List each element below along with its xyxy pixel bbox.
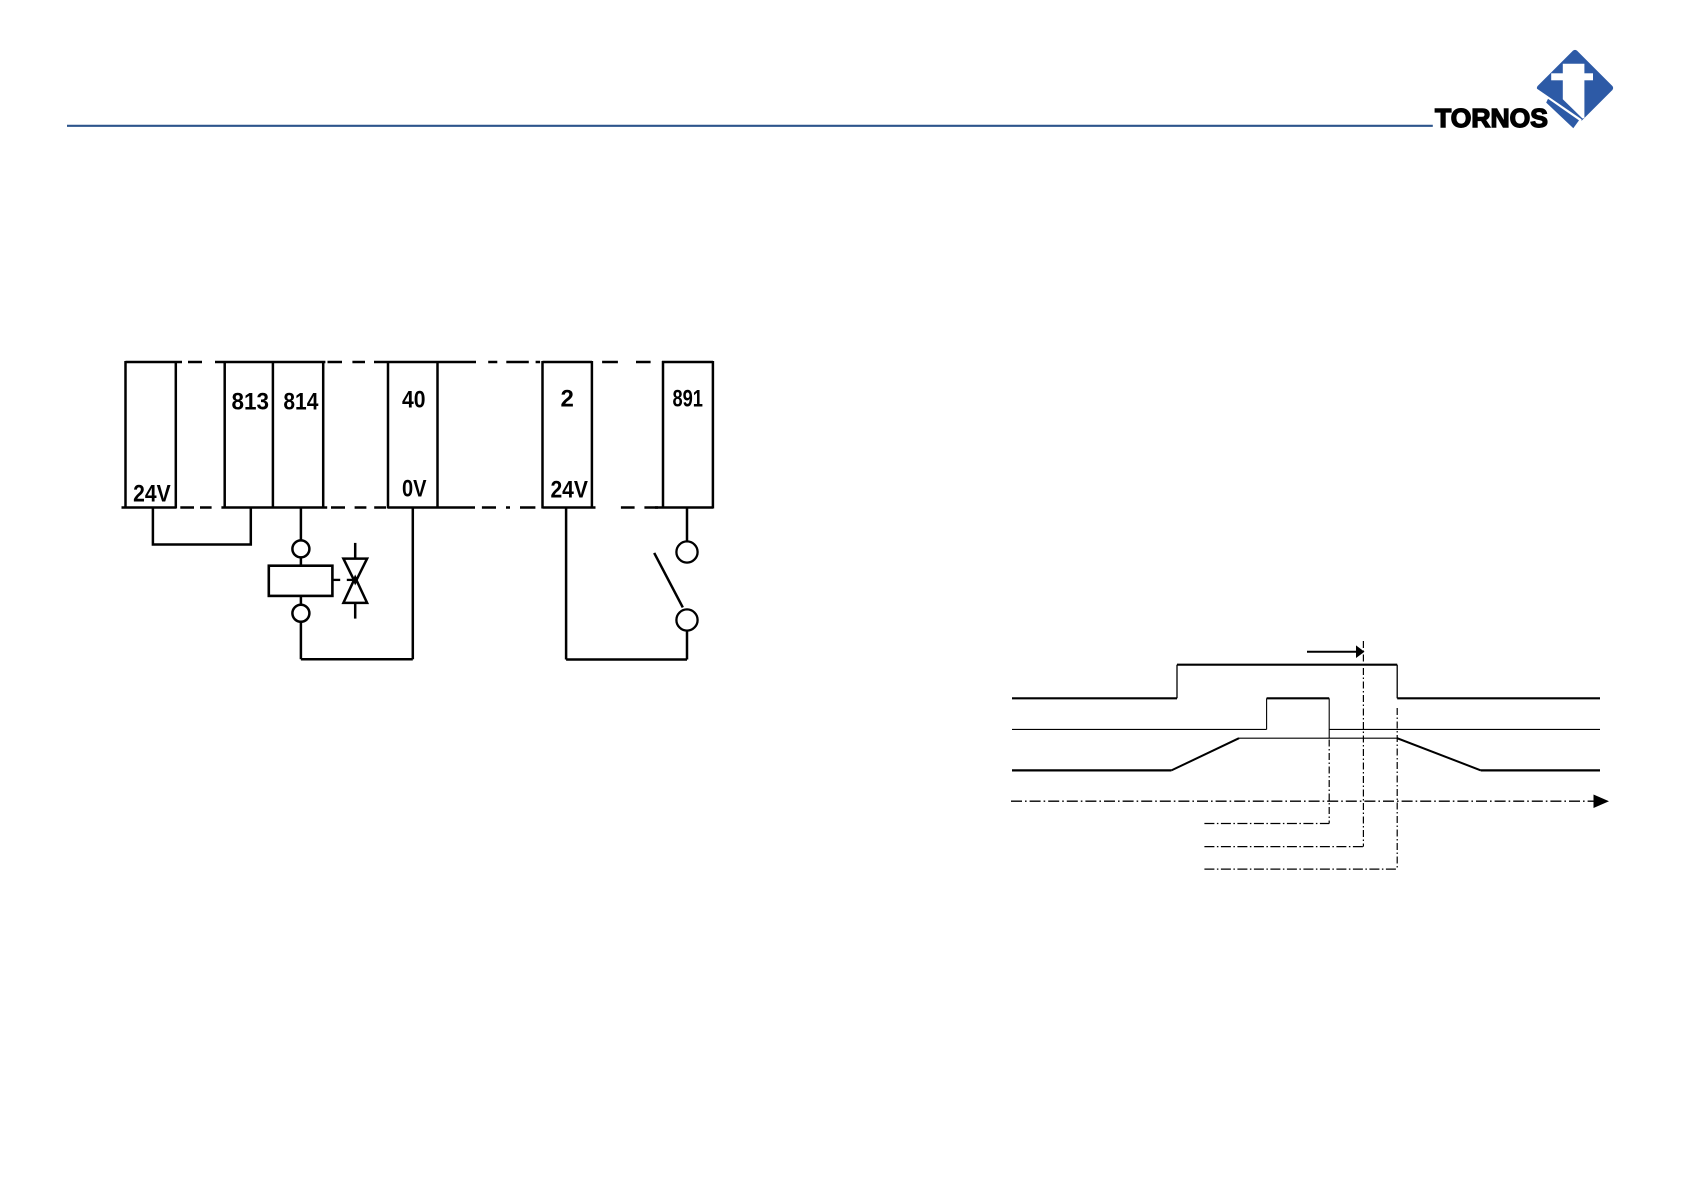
svg-text:813: 813 [232,389,270,416]
svg-text:40: 40 [402,387,426,414]
svg-text:24V: 24V [550,477,588,504]
svg-text:0V: 0V [402,476,427,503]
svg-text:891: 891 [672,386,703,413]
svg-text:2: 2 [561,386,574,413]
svg-text:24V: 24V [133,481,171,508]
svg-text:TORNOS: TORNOS [1435,103,1548,133]
svg-text:814: 814 [283,389,319,416]
